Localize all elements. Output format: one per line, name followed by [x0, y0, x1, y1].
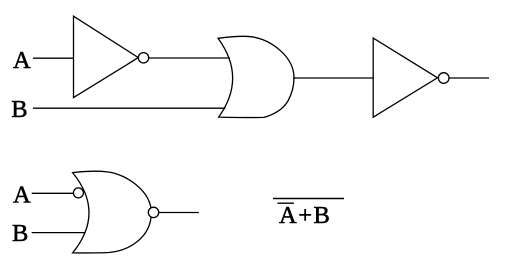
- svg-text:A: A: [13, 181, 31, 208]
- svg-text:A+B: A+B: [279, 202, 331, 229]
- svg-text:B: B: [11, 96, 27, 123]
- svg-text:B: B: [12, 220, 28, 247]
- svg-text:A: A: [13, 47, 31, 74]
